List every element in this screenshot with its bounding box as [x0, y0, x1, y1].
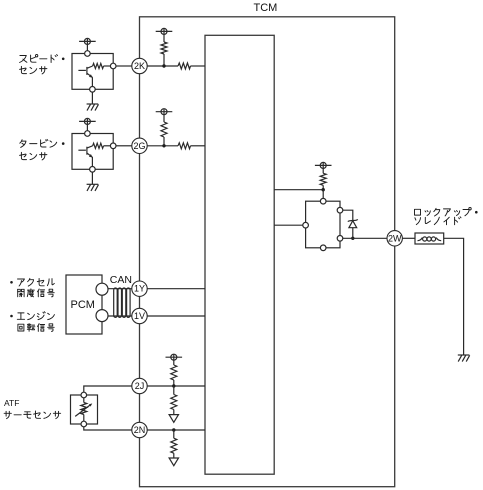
ground arrow (2N) [169, 458, 178, 466]
twisted pair CAN bus [114, 288, 130, 317]
wire 2J node to pull-down resistor [173, 386, 175, 395]
resistor R (2G pull-up) [161, 122, 167, 137]
junction dot 2J node [172, 384, 175, 387]
resistor R (driver pull-up) [320, 173, 326, 185]
lockup solenoid coil [415, 233, 444, 244]
svg-text:ATF: ATF [4, 398, 19, 408]
wire 2J pull-up resistor to node [173, 380, 175, 386]
wire solenoid to ground [444, 238, 464, 355]
node circle PCM upper [96, 283, 108, 295]
junction dot zener output [351, 237, 354, 240]
resistor R (2J pull-up) [171, 365, 177, 380]
pin 1Y [132, 281, 147, 296]
wire PCM upper to pin 1Y [106, 288, 132, 290]
transistor Q (speed sensor) [78, 66, 92, 87]
svg-text:2G: 2G [133, 141, 145, 151]
wire power to turbine sensor box [86, 125, 88, 132]
wire ATF top to pin 2J [84, 386, 132, 392]
pin 2W [387, 231, 402, 246]
ATF thermosensor box [71, 395, 98, 424]
wire pin 2G to series resistor [147, 145, 178, 147]
wire IC block to driver left node [274, 224, 303, 226]
node circle driver left [303, 222, 309, 228]
node circle top (speed sensor) [85, 51, 91, 57]
driver transistor box [306, 201, 340, 248]
PCM box [66, 275, 102, 334]
svg-text:1V: 1V [134, 311, 145, 321]
power symbol B+ (turbine sensor) [79, 118, 96, 124]
wire pull-up resistor to 2G node [163, 137, 165, 146]
wire 2J pull-down resistor to arrow [173, 410, 175, 415]
resistor R (2N pull-down) [171, 438, 177, 453]
wire pin 2W to solenoid [402, 237, 415, 239]
svg-text:CAN: CAN [110, 274, 132, 286]
speed sensor box [72, 54, 113, 90]
resistor R (2J pull-down) [171, 395, 177, 410]
label ソレノイド [415, 217, 461, 225]
power symbol B+ (driver pull-up) [315, 162, 332, 168]
thermistor (variable resistor) [75, 398, 92, 421]
ground (speed sensor) [87, 104, 99, 111]
TCM outer box [140, 17, 395, 487]
wire speed sensor to pin 2K [116, 65, 132, 67]
svg-text:TCM: TCM [254, 2, 278, 14]
wire pin 1V to IC block [147, 315, 205, 317]
svg-text:2K: 2K [134, 61, 145, 71]
label スピード・センサ [20, 55, 65, 63]
svg-text:2J: 2J [135, 381, 145, 391]
ground arrow (2J) [169, 415, 178, 423]
pin 2G [132, 138, 147, 153]
node circle bottom (turbine sensor) [90, 167, 96, 173]
pin 2K [132, 58, 147, 73]
resistor (turbine sensor internal) [93, 143, 104, 148]
node circle driver bottom [320, 245, 326, 251]
power symbol B+ (2K pull-up) [156, 28, 173, 34]
wire driver output to pin 2W [343, 237, 387, 239]
wire PCM lower to pin 1V [106, 315, 132, 317]
wire pull-up resistor to 2K node [163, 54, 165, 66]
pin 1V [132, 308, 147, 323]
wire power to pull-up resistor [163, 35, 165, 43]
junction dot 2K pull-up node [162, 64, 165, 67]
TCM internal IC block [205, 35, 274, 474]
label ロックアップ・ [415, 208, 478, 217]
wire pin 2N to IC block [147, 429, 205, 431]
resistor R (2K pull-up) [161, 42, 167, 54]
wire series resistor to IC block [191, 65, 206, 67]
svg-text:1Y: 1Y [134, 284, 145, 294]
wire 2N node to pull-down resistor [173, 430, 175, 438]
wire junction to driver box [322, 190, 324, 199]
node circle ATF bottom [81, 421, 87, 427]
ground (solenoid) [458, 355, 470, 362]
power symbol B+ (2J pull-up) [166, 354, 183, 360]
turbine sensor box [72, 134, 113, 170]
node circle PCM lower [96, 310, 108, 322]
node circle output (turbine sensor) [110, 143, 116, 149]
power symbol B+ (2G pull-up) [156, 109, 173, 115]
svg-text:PCM: PCM [71, 299, 95, 311]
svg-text:2W: 2W [388, 233, 402, 243]
zener diode D [348, 219, 358, 238]
junction dot 2G pull-up node [162, 144, 165, 147]
wire ATF bottom to pin 2N [84, 427, 132, 430]
wire power to speed sensor box [86, 45, 88, 52]
junction dot driver base node [322, 188, 325, 191]
resistor R (2G series) [178, 143, 191, 149]
wire pin 2K to series resistor [147, 65, 178, 67]
ground (turbine sensor) [87, 184, 99, 191]
wire series resistor to IC block [191, 145, 206, 147]
node circle driver top [320, 198, 326, 204]
wire resistor to output node [104, 65, 111, 67]
wire driver right upper to zener [343, 210, 353, 220]
wire power to 2J pull-up resistor [173, 360, 175, 365]
wire IC block to driver top node [274, 189, 323, 191]
transistor Q (turbine sensor) [78, 146, 92, 167]
label ・アクセル開度信号 [10, 278, 54, 286]
power symbol B+ (speed sensor) [79, 38, 96, 44]
wire pin 2J to IC block [147, 385, 205, 387]
label ・エンジン回転信号 [10, 312, 54, 320]
pin 2J [132, 378, 147, 393]
node circle bottom (speed sensor) [90, 87, 96, 93]
svg-text:2N: 2N [134, 425, 146, 435]
resistor R (2K series) [178, 63, 191, 69]
wire power to driver pull-up resistor [322, 169, 324, 174]
node circle output (speed sensor) [110, 63, 116, 69]
wire speed sensor to ground [91, 92, 93, 104]
wire turbine sensor to ground [91, 172, 93, 184]
wire turbine sensor to pin 2G [116, 145, 132, 147]
node circle driver right lower [337, 236, 343, 242]
node circle ATF top [81, 392, 87, 398]
wire driver pull-up resistor to junction [322, 185, 324, 189]
label タービン・センサ [20, 139, 65, 147]
junction dot 2N node [172, 428, 175, 431]
wire power to pull-up resistor [163, 115, 165, 122]
pin 2N [132, 422, 147, 437]
node circle top (turbine sensor) [85, 131, 91, 137]
label サーモセンサ [4, 411, 61, 419]
wire pin 1Y to IC block [147, 288, 205, 290]
node circle driver right upper [337, 207, 343, 213]
wire resistor to output node [104, 145, 111, 147]
wire 2N pull-down resistor to arrow [173, 453, 175, 458]
resistor (speed sensor internal) [93, 63, 104, 68]
